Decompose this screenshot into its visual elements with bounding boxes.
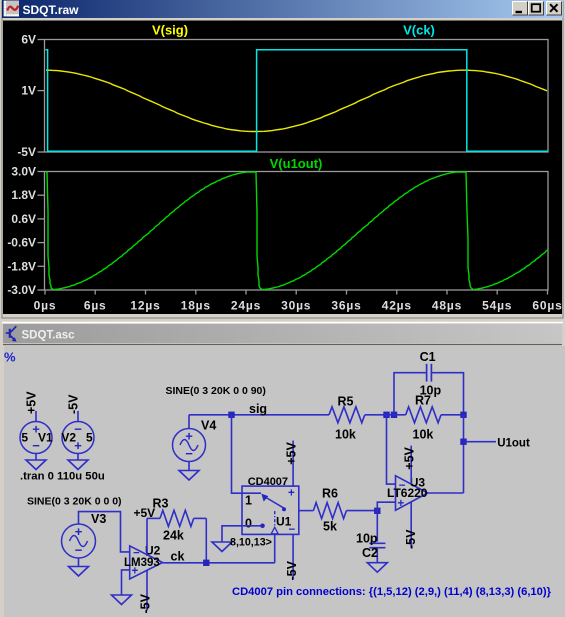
schematic window SDQT.asc frame <box>0 319 565 617</box>
ground C2 <box>367 563 387 573</box>
svg-text:-3.0V: -3.0V <box>7 283 36 297</box>
wire R3 to ck node <box>205 518 207 563</box>
pane2 y labels <box>38 171 45 173</box>
svg-text:54µs: 54µs <box>482 299 512 313</box>
svg-text:CD4007: CD4007 <box>248 476 288 488</box>
wire U1 contact 0 <box>242 525 262 527</box>
wire V3 bottom <box>78 558 80 567</box>
wire V4 top <box>188 415 190 429</box>
svg-text:5: 5 <box>21 431 28 445</box>
svg-text:C1: C1 <box>420 350 436 364</box>
svg-text:5k: 5k <box>323 520 337 534</box>
pane 1 box <box>45 40 549 153</box>
wire V2 bottom <box>77 454 79 461</box>
svg-text:C2: C2 <box>362 546 378 560</box>
svg-text:V(u1out): V(u1out) <box>270 156 323 171</box>
svg-text:sig: sig <box>249 402 267 416</box>
svg-text:0: 0 <box>245 517 252 531</box>
svg-text:60µs: 60µs <box>532 299 562 313</box>
ground U1 input 0 <box>212 542 232 552</box>
svg-text:24µs: 24µs <box>231 299 261 313</box>
comparator U2 LM393 <box>124 544 163 580</box>
time axis labels <box>44 290 46 295</box>
svg-text:12µs: 12µs <box>130 299 160 313</box>
svg-text:-5V: -5V <box>404 529 418 549</box>
svg-text:24k: 24k <box>163 529 184 543</box>
svg-text:−: − <box>185 446 193 461</box>
svg-text:V1: V1 <box>38 431 53 445</box>
resistor R3 <box>147 497 206 543</box>
wire U3 V- <box>410 502 412 548</box>
junction sig node <box>228 412 234 418</box>
svg-text:−: − <box>75 543 83 558</box>
junction U3 plus node <box>374 508 380 514</box>
svg-text:10k: 10k <box>413 428 434 442</box>
svg-text:V2: V2 <box>61 431 76 445</box>
pane 2 box <box>45 172 549 291</box>
wire ck <box>163 562 275 564</box>
switch arm U1 <box>266 498 284 509</box>
wire U2 V+ <box>146 518 148 556</box>
wire feedback down <box>463 415 465 493</box>
svg-text:-1.8V: -1.8V <box>7 259 36 273</box>
svg-text:30µs: 30µs <box>281 299 311 313</box>
junction R7/C1/out node <box>460 412 466 418</box>
svg-text:-5V: -5V <box>285 560 299 580</box>
ground U2 input <box>112 595 132 605</box>
svg-text:.tran 0 110u 50u: .tran 0 110u 50u <box>20 471 105 483</box>
wire inverting input U3 <box>387 415 396 484</box>
svg-text:V(ck): V(ck) <box>403 23 435 38</box>
resistor R5 <box>329 395 384 442</box>
window buttons <box>513 2 528 16</box>
svg-text:−: − <box>289 524 296 536</box>
svg-text:R5: R5 <box>338 395 354 409</box>
wire U1 V+ <box>292 441 294 487</box>
wire V2 top <box>77 411 79 422</box>
wire sig <box>189 414 329 416</box>
svg-text:0µs: 0µs <box>34 299 57 313</box>
waveform doc icon <box>4 1 20 17</box>
switch contact 0 dot <box>260 524 265 529</box>
svg-text:5: 5 <box>86 431 93 445</box>
voltage source V1 <box>20 422 53 454</box>
wire V1 bottom <box>35 454 37 461</box>
svg-text:V4: V4 <box>201 419 216 433</box>
ground V3 <box>69 567 89 577</box>
wire U2 plus input to ground <box>122 570 130 595</box>
ground V4 <box>179 471 199 481</box>
junction U1out tap <box>460 439 466 445</box>
wire U3 output <box>428 492 464 494</box>
svg-text:CD4007 pin connections: {(1,5,: CD4007 pin connections: {(1,5,12) (2,9,)… <box>232 586 552 598</box>
svg-text:LT6220: LT6220 <box>387 486 428 500</box>
svg-text:R6: R6 <box>322 487 338 501</box>
svg-text:V3: V3 <box>91 512 106 526</box>
waveform window SDQT.raw frame <box>1 0 564 319</box>
svg-text:42µs: 42µs <box>382 299 412 313</box>
resistor R6 <box>299 487 378 534</box>
trace V(u1out) <box>46 172 548 289</box>
op-amp U3 LT6220 <box>387 476 428 511</box>
schematic doc icon (transistor glyph) <box>6 326 17 341</box>
svg-text:1V: 1V <box>21 84 36 98</box>
svg-text:ck: ck <box>171 550 185 564</box>
voltage source V4 <box>173 419 217 462</box>
svg-text:8,10,13>: 8,10,13> <box>230 537 272 549</box>
svg-text:-0.6V: -0.6V <box>7 236 36 250</box>
svg-text:10k: 10k <box>335 428 356 442</box>
svg-text:+5V: +5V <box>25 391 39 414</box>
wire U1out <box>464 441 497 443</box>
svg-text:48µs: 48µs <box>432 299 462 313</box>
junction R5/U3 node <box>383 412 389 418</box>
svg-text:+5V: +5V <box>403 446 417 469</box>
wire U3 V+ <box>410 446 412 484</box>
resistor R7 <box>406 394 464 442</box>
svg-text:3.0V: 3.0V <box>11 165 36 179</box>
junction ck node <box>203 560 209 566</box>
svg-text:SINE(0 3 20K 0 0 0): SINE(0 3 20K 0 0 0) <box>27 496 122 508</box>
CMOS switch U1 CD4007 <box>242 476 299 536</box>
svg-text:+: + <box>288 488 295 500</box>
svg-text:-5V: -5V <box>139 593 153 613</box>
select dash-dot line <box>274 511 276 527</box>
wire V1 top <box>35 411 37 422</box>
wire ck to U1 select <box>274 534 276 562</box>
voltage source V3 <box>62 512 107 558</box>
svg-text:6V: 6V <box>21 33 36 47</box>
junction C1/R7 node <box>391 412 397 418</box>
voltage source V2 <box>61 422 94 454</box>
svg-text:SINE(0 3 20K 0 0 90): SINE(0 3 20K 0 0 90) <box>166 385 266 397</box>
svg-text:R3: R3 <box>153 497 169 511</box>
svg-text:SDQT.raw: SDQT.raw <box>23 3 80 17</box>
svg-text:SDQT.asc: SDQT.asc <box>22 330 76 342</box>
svg-text:18µs: 18µs <box>181 299 211 313</box>
ground V1 <box>26 460 46 470</box>
svg-text:1: 1 <box>245 494 252 508</box>
pane1 y labels <box>38 39 45 41</box>
trace V(ck) <box>46 50 549 152</box>
svg-text:-5V: -5V <box>67 394 81 414</box>
svg-text:+5V: +5V <box>285 442 299 465</box>
wire U1 V- <box>292 534 294 578</box>
wire V3 to comparator <box>79 512 130 552</box>
wire V4 bottom <box>188 462 190 471</box>
wire sig to U1 input 1 <box>232 415 262 493</box>
svg-text:1.8V: 1.8V <box>11 188 36 202</box>
capacitor C1 <box>394 350 464 415</box>
plot client area <box>3 18 562 21</box>
capacitor C2 <box>356 511 385 563</box>
svg-text:V(sig): V(sig) <box>152 23 188 38</box>
wire node <box>384 414 406 416</box>
svg-text:0.6V: 0.6V <box>11 212 36 226</box>
svg-text:-5V: -5V <box>17 145 36 159</box>
svg-text:U1out: U1out <box>497 438 530 450</box>
ground V2 <box>68 460 88 470</box>
svg-text:36µs: 36µs <box>331 299 361 313</box>
trace V(sig) <box>46 70 547 131</box>
svg-text:LM393: LM393 <box>124 557 160 569</box>
schematic client area <box>4 346 565 617</box>
inactive title bar <box>3 324 562 343</box>
svg-text:%: % <box>4 350 16 365</box>
wire U2 V- <box>146 570 148 611</box>
svg-text:R7: R7 <box>415 394 431 408</box>
wire U1 contact 0 to ground <box>222 526 242 542</box>
svg-text:6µs: 6µs <box>84 299 107 313</box>
svg-text:10p: 10p <box>356 532 378 546</box>
wire to U3 plus <box>377 502 395 511</box>
active title bar <box>2 0 563 18</box>
